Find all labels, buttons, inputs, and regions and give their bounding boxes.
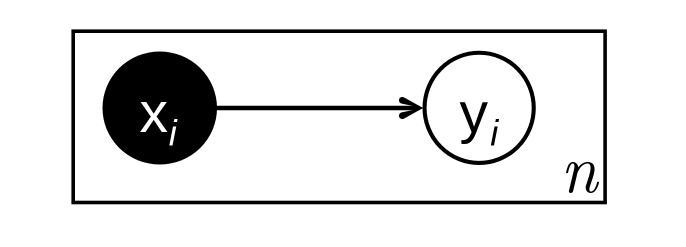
wire: arrow shaft from x_i to y_i [212,106,420,110]
svg-text:y: y [460,81,489,145]
node x_i (observed, filled circle) [103,52,218,165]
plate rectangle [73,31,605,202]
svg-text:i: i [169,113,178,154]
arrowhead [399,97,423,108]
svg-text:i: i [490,113,499,154]
svg-text:x: x [140,81,169,145]
node y_i (latent, open circle) [425,53,534,163]
plate count label n [566,162,599,193]
